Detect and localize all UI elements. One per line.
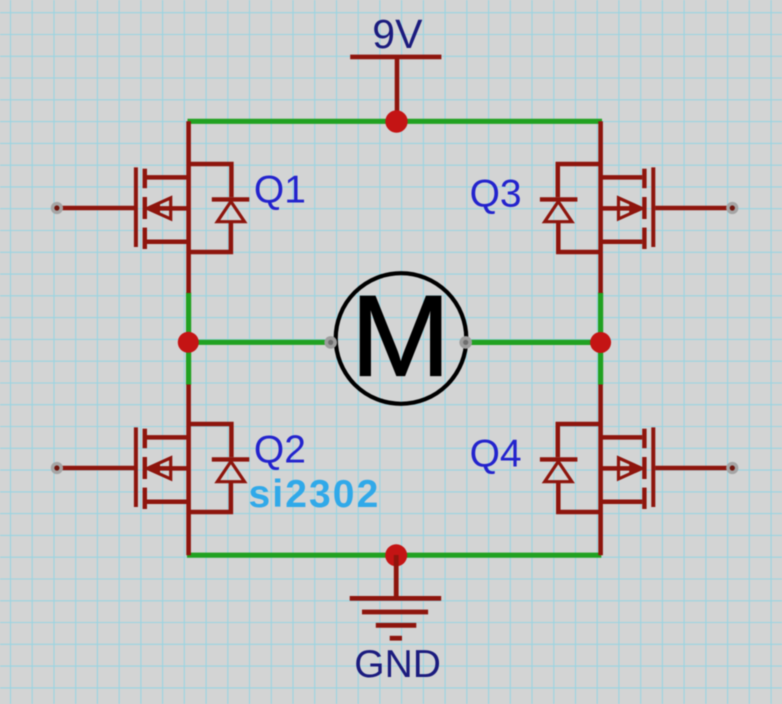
- svg-text:Q3: Q3: [470, 173, 522, 216]
- svg-text:Q4: Q4: [470, 433, 522, 476]
- junction node: left bridge midpoint: [178, 332, 199, 353]
- junction node: right bridge midpoint: [590, 332, 611, 353]
- junction node: bottom rail to ground: [385, 544, 407, 566]
- terminal: motor left pin: [324, 336, 337, 349]
- svg-text:M: M: [350, 272, 450, 400]
- ground symbol: [350, 555, 442, 638]
- junction node: 9V to top rail: [385, 110, 407, 132]
- terminal: motor right pin: [459, 336, 472, 349]
- transistor Q3 (P-MOSFET with body diode, mirrored): [540, 164, 732, 252]
- svg-text:si2302: si2302: [249, 473, 381, 516]
- wire: right upper red vertical (Q3 path): [598, 121, 603, 293]
- wire: right mid vertical green segment: [598, 293, 603, 385]
- terminal: Q1 gate pin: [51, 202, 63, 214]
- power symbol 9V: [350, 57, 441, 121]
- svg-text:Q2: Q2: [254, 429, 306, 472]
- transistor Q4 (P-MOSFET with body diode, mirrored): [540, 424, 732, 512]
- motor M1: [336, 272, 467, 404]
- wire: right motor lead (green): [466, 340, 601, 345]
- wire: top +9V rail (green): [188, 119, 603, 124]
- wire: left upper red vertical (Q1 drain/source path): [186, 121, 191, 293]
- svg-text:9V: 9V: [372, 11, 423, 57]
- svg-text:GND: GND: [354, 643, 441, 686]
- wire: left lower red vertical (Q2 path): [186, 385, 191, 556]
- transistor Q2 (P-MOSFET with body diode): [57, 424, 249, 512]
- terminal: Q2 gate pin: [51, 462, 63, 474]
- wire: left mid vertical green segment: [186, 293, 191, 385]
- svg-text:Q1: Q1: [254, 169, 306, 212]
- wire: bottom ground rail (green): [187, 553, 601, 558]
- transistor Q1 (P-MOSFET with body diode): [57, 164, 249, 252]
- terminal: Q4 gate pin: [726, 462, 738, 474]
- terminal: Q3 gate pin: [726, 202, 738, 214]
- wire: left motor lead (green): [188, 340, 331, 345]
- wire: right lower red vertical (Q4 path): [598, 385, 603, 556]
